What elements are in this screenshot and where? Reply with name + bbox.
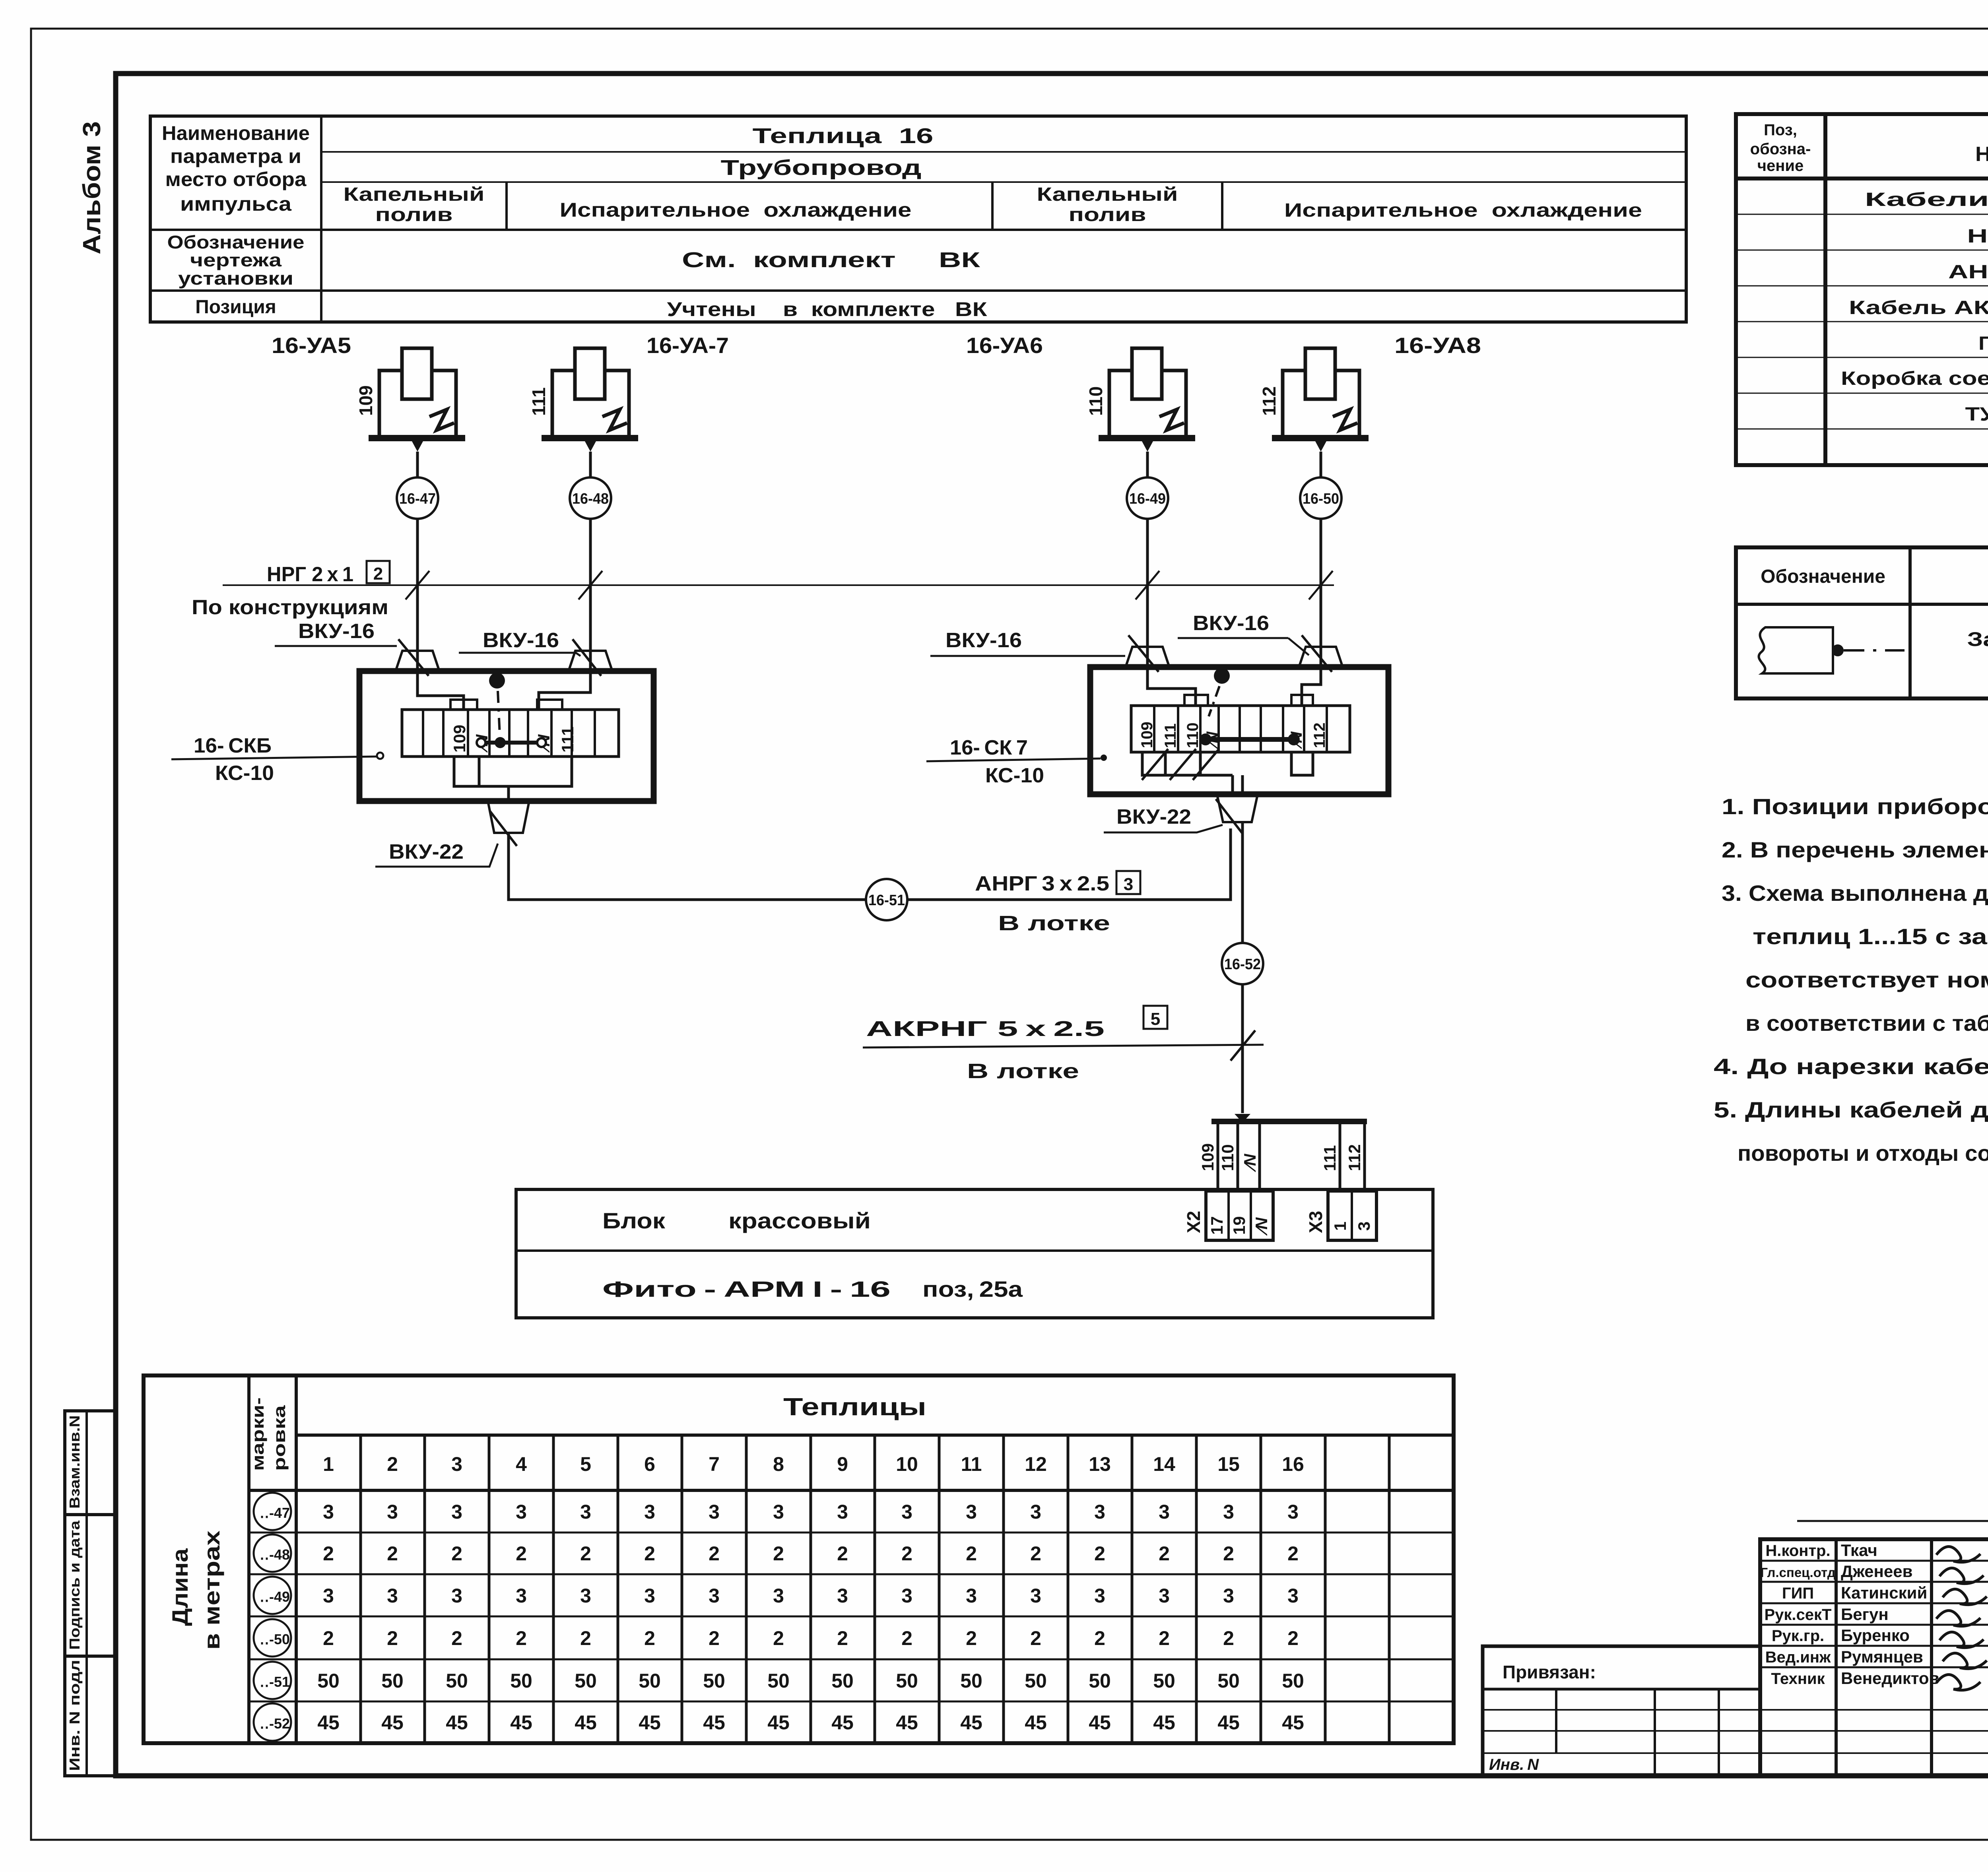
- svg-text:В лотке: В лотке: [998, 912, 1110, 935]
- svg-text:2: 2: [323, 1542, 334, 1565]
- svg-text:11: 11: [961, 1453, 982, 1475]
- svg-text:2: 2: [580, 1627, 591, 1649]
- label box 3: [1116, 871, 1140, 894]
- wire device 112 to box2: [1302, 452, 1321, 706]
- svg-text:7: 7: [709, 1453, 720, 1475]
- cable id circle 16-49: [1127, 477, 1168, 519]
- cable id circle 16-52: [1222, 943, 1263, 984]
- svg-text:50: 50: [960, 1670, 982, 1692]
- svg-text:2: 2: [1030, 1542, 1041, 1565]
- svg-text:50: 50: [1025, 1670, 1047, 1692]
- cable id circle 16-48: [570, 477, 611, 519]
- svg-text:‥-51: ‥-51: [260, 1674, 290, 1690]
- svg-text:ВКУ-16: ВКУ-16: [483, 629, 559, 652]
- svg-text:3: 3: [709, 1501, 720, 1523]
- svg-text:‥-49: ‥-49: [260, 1589, 290, 1605]
- box2 neutral jumper: [1206, 737, 1294, 742]
- svg-text:ВКУ-22: ВКУ-22: [389, 840, 464, 863]
- svg-text:111: 111: [558, 727, 577, 753]
- svg-text:2: 2: [1094, 1542, 1105, 1565]
- svg-text:чертежа: чертежа: [190, 250, 282, 270]
- svg-text:1: 1: [1331, 1222, 1349, 1231]
- greenhouse mark circle -49: [254, 1577, 291, 1614]
- svg-text:2: 2: [516, 1542, 527, 1565]
- svg-text:2: 2: [1094, 1627, 1105, 1649]
- svg-text:17: 17: [1208, 1216, 1226, 1235]
- svg-text:45: 45: [317, 1711, 340, 1734]
- title block top line: [1797, 1520, 1988, 1522]
- svg-text:109: 109: [1138, 722, 1156, 748]
- signature table bottom rows: [1760, 1709, 1988, 1711]
- greenhouse table column line x2200: [874, 1435, 876, 1743]
- svg-text:3: 3: [580, 1585, 591, 1607]
- greenhouse mark circle -48: [254, 1534, 291, 1572]
- svg-text:50: 50: [639, 1670, 661, 1692]
- svg-text:45: 45: [575, 1711, 597, 1734]
- solenoid valve 16-&#1059;А6: [1085, 348, 1195, 452]
- svg-text:Учтены в комплекте ВК: Учтены в комплекте ВК: [667, 298, 988, 320]
- parts table column line 4591: [1823, 114, 1827, 465]
- svg-text:Альбом 3: Альбом 3: [78, 121, 106, 254]
- svg-text:Рук.секТ: Рук.секТ: [1764, 1606, 1831, 1624]
- box2 bottom tabs and slashes: [1142, 752, 1233, 775]
- svg-text:Инв. N подл: Инв. N подл: [66, 1660, 83, 1771]
- svg-text:111: 111: [1162, 724, 1179, 748]
- svg-text:2: 2: [644, 1627, 655, 1649]
- greenhouse table column line x1877: [745, 1435, 748, 1743]
- svg-text:45: 45: [1217, 1711, 1240, 1734]
- greenhouse table column line x3171: [1260, 1435, 1262, 1743]
- svg-text:2: 2: [580, 1542, 591, 1565]
- terminal drop wires: [1217, 1121, 1219, 1191]
- legend ground-conductor symbol: [1759, 627, 1833, 673]
- svg-text:Вед.инж: Вед.инж: [1765, 1649, 1831, 1666]
- svg-text:3: 3: [773, 1585, 784, 1607]
- label АКРНГ 5х2.5 line: [863, 1045, 1264, 1048]
- svg-text:ВКУ-16: ВКУ-16: [945, 629, 1022, 652]
- gland ВКУ-16 at device109 entry: [396, 651, 439, 671]
- svg-text:50: 50: [1089, 1670, 1111, 1692]
- svg-text:45: 45: [896, 1711, 918, 1734]
- svg-text:3: 3: [837, 1501, 848, 1523]
- svg-text:Гл.спец.отд: Гл.спец.отд: [1760, 1565, 1835, 1580]
- cable id circle 16-51: [866, 879, 907, 920]
- svg-text:3: 3: [1094, 1501, 1105, 1523]
- svg-text:ВКУ-16: ВКУ-16: [1193, 612, 1269, 635]
- svg-text:3: 3: [1159, 1501, 1170, 1523]
- legend header line: [1736, 603, 1988, 606]
- svg-text:110: 110: [1218, 1144, 1237, 1171]
- parts table row line 6: [1736, 393, 1988, 394]
- parameter table row line under Теплица 16: [321, 151, 1686, 153]
- svg-text:марки-: марки-: [248, 1397, 267, 1471]
- solenoid valve 16-&#1059;А-7: [528, 348, 638, 452]
- svg-text:3. Схема выполнена для тепл: 3. Схема выполнена для теплицы 16 и прим…: [1722, 881, 1988, 906]
- svg-text:3: 3: [1124, 875, 1133, 894]
- svg-text:2: 2: [1159, 1627, 1170, 1649]
- svg-text:50: 50: [381, 1670, 404, 1692]
- parameter table column line 2496: [991, 182, 994, 230]
- signature row Гл.спец.отд Дженеев: [1760, 1560, 1988, 1562]
- svg-text:Длина: Длина: [167, 1548, 192, 1626]
- greenhouse table column line x2524: [1002, 1435, 1005, 1743]
- svg-text:Взам.инв.N: Взам.инв.N: [66, 1415, 83, 1509]
- cable slash АКРНГ: [1231, 1030, 1255, 1061]
- box2 ВКУ-22 slash: [1216, 799, 1243, 834]
- svg-text:16-УА8: 16-УА8: [1394, 333, 1481, 358]
- gland ВКУ-16 at device112 entry: [1299, 647, 1343, 667]
- margin box Взам.инв.N: [65, 1411, 116, 1515]
- svg-text:6: 6: [644, 1453, 655, 1475]
- svg-text:2: 2: [644, 1542, 655, 1565]
- greenhouse table row line y4280: [249, 1701, 1454, 1703]
- svg-text:ровка: ровка: [270, 1405, 289, 1471]
- svg-text:КС-10: КС-10: [215, 762, 274, 785]
- svg-text:По конструкциям: По конструкциям: [192, 596, 388, 619]
- svg-text:‥-47: ‥-47: [260, 1505, 290, 1521]
- svg-text:45: 45: [703, 1711, 725, 1734]
- svg-text:Кабель АКРНГ 5×2.5: Кабель АКРНГ 5×2.5: [1849, 297, 1988, 318]
- gland ВКУ-16 at device111 entry: [569, 651, 612, 671]
- box2 ground dash-dot line: [1209, 686, 1219, 716]
- box1 ground dash-dot line: [498, 691, 500, 735]
- svg-text:50: 50: [767, 1670, 790, 1692]
- cable line НРГ 2x1: [223, 584, 1334, 586]
- parameter table row line under См. комплект: [150, 289, 1686, 292]
- box2 exit wires: [1233, 775, 1242, 793]
- svg-text:2: 2: [1287, 1627, 1299, 1649]
- svg-text:3: 3: [1159, 1585, 1170, 1607]
- svg-text:112: 112: [1345, 1144, 1364, 1171]
- svg-text:поз, 25а: поз, 25а: [922, 1276, 1023, 1302]
- svg-text:Техник: Техник: [1771, 1670, 1825, 1688]
- block middle line: [516, 1249, 1433, 1252]
- parts table row line 1: [1736, 214, 1988, 215]
- greenhouse table column line x1068: [423, 1435, 426, 1743]
- svg-text:ГОСТ 1508-78: ГОСТ 1508-78: [1978, 333, 1988, 354]
- svg-text:3: 3: [1287, 1501, 1299, 1523]
- svg-text:ГИП: ГИП: [1782, 1585, 1814, 1602]
- svg-text:ТУ 36.2568-83: ТУ 36.2568-83: [1965, 404, 1988, 425]
- svg-text:109: 109: [1198, 1143, 1217, 1171]
- svg-text:теплиц 1...15 с заменой ин: теплиц 1...15 с заменой индекса в обозна…: [1753, 924, 1988, 949]
- svg-text:16: 16: [1282, 1453, 1304, 1475]
- svg-text:НРГ-0.66 2×1: НРГ-0.66 2×1: [1967, 226, 1988, 247]
- svg-text:3: 3: [966, 1501, 977, 1523]
- svg-text:Подпись и дата: Подпись и дата: [66, 1520, 83, 1650]
- greenhouse table column line x3494: [1388, 1435, 1391, 1743]
- box1 ВКУ-22 slash: [490, 811, 517, 846]
- svg-text:2: 2: [387, 1453, 398, 1475]
- greenhouse table row line y3855: [249, 1532, 1454, 1534]
- box1 top tabs: [450, 700, 562, 710]
- greenhouse table column line x2847: [1131, 1435, 1134, 1743]
- svg-text:50: 50: [831, 1670, 854, 1692]
- box2 right bottom tab: [1291, 752, 1313, 775]
- svg-text:50: 50: [896, 1670, 918, 1692]
- svg-text:4. До нарезки кабеля длины: 4. До нарезки кабеля длины трасс уточнит…: [1714, 1054, 1988, 1079]
- svg-text:13: 13: [1089, 1453, 1111, 1475]
- signature row Вед.инж Румянцев: [1760, 1645, 1988, 1647]
- svg-text:2: 2: [1223, 1542, 1234, 1565]
- greenhouse mark circle -52: [254, 1703, 291, 1741]
- box1 bottom tabs: [454, 757, 572, 786]
- svg-text:5: 5: [1151, 1009, 1160, 1029]
- greenhouse table column line x2039: [810, 1435, 812, 1743]
- svg-text:Инв. N: Инв. N: [1489, 1756, 1539, 1773]
- svg-text:2: 2: [901, 1627, 912, 1649]
- svg-text:3: 3: [451, 1453, 462, 1475]
- signature row Рук.секТ Бегун: [1760, 1602, 1988, 1604]
- svg-text:1: 1: [323, 1453, 334, 1475]
- box2 top tabs: [1184, 695, 1313, 706]
- svg-text:109: 109: [355, 385, 376, 416]
- svg-text:в соответствии с таблицей: в соответствии с таблицей применимости.: [1745, 1011, 1988, 1036]
- svg-text:45: 45: [960, 1711, 982, 1734]
- svg-text:3: 3: [966, 1585, 977, 1607]
- svg-text:50: 50: [510, 1670, 532, 1692]
- svg-text:3: 3: [644, 1585, 655, 1607]
- svg-text:Н.контр.: Н.контр.: [1765, 1542, 1830, 1560]
- svg-text:2: 2: [1159, 1542, 1170, 1565]
- svg-text:в метрах: в метрах: [199, 1531, 224, 1650]
- svg-text:112: 112: [1311, 722, 1328, 748]
- box1 terminal strip: [402, 710, 619, 757]
- svg-text:111: 111: [528, 387, 549, 416]
- svg-text:Позиция: Позиция: [195, 297, 276, 318]
- svg-text:50: 50: [317, 1670, 340, 1692]
- wire box2 down to crossover bar: [1241, 822, 1244, 1113]
- svg-text:9: 9: [837, 1453, 848, 1475]
- greenhouse mark circle -50: [254, 1619, 291, 1657]
- svg-text:‥-48: ‥-48: [260, 1546, 290, 1563]
- svg-text:Х2: Х2: [1183, 1211, 1204, 1233]
- greenhouse table column line x3333: [1324, 1435, 1327, 1743]
- svg-text:19: 19: [1230, 1216, 1248, 1235]
- greenhouse table column line x3009: [1195, 1435, 1198, 1743]
- svg-text:2: 2: [1287, 1542, 1299, 1565]
- parts table row line 7: [1736, 429, 1988, 430]
- wire device 109 to box1: [417, 452, 464, 710]
- label box 5: [1143, 1006, 1167, 1029]
- solenoid valve 16-&#1059;А8: [1259, 348, 1369, 452]
- cable slash at 1050: [406, 571, 429, 599]
- svg-text:45: 45: [831, 1711, 854, 1734]
- svg-text:Наименование: Наименование: [162, 122, 310, 144]
- svg-text:Буренко: Буренко: [1841, 1626, 1910, 1645]
- svg-text:14: 14: [1153, 1453, 1175, 1475]
- svg-text:3: 3: [644, 1501, 655, 1523]
- svg-text:Х3: Х3: [1305, 1211, 1326, 1233]
- margin box Инв. N подл: [65, 1656, 116, 1776]
- svg-text:50: 50: [703, 1670, 725, 1692]
- svg-text:2: 2: [451, 1542, 462, 1565]
- svg-text:3: 3: [323, 1585, 334, 1607]
- svg-text:АНРГ-0.66 3×2.5: АНРГ-0.66 3×2.5: [1948, 262, 1988, 283]
- svg-text:2: 2: [1030, 1627, 1041, 1649]
- svg-text:2: 2: [901, 1542, 912, 1565]
- signature row ГИП Катинский: [1760, 1581, 1988, 1583]
- svg-text:2: 2: [323, 1627, 334, 1649]
- greenhouse table column line x1715: [681, 1435, 683, 1743]
- svg-text:2: 2: [451, 1627, 462, 1649]
- svg-text:Капельный: Капельный: [1037, 184, 1178, 205]
- svg-text:импульса: импульса: [180, 193, 292, 215]
- parameter table row line under Трубопровод: [321, 181, 1686, 183]
- parameter table row line under header: [150, 229, 1686, 231]
- svg-text:Бегун: Бегун: [1841, 1605, 1889, 1624]
- svg-text:10: 10: [896, 1453, 918, 1475]
- svg-text:3: 3: [901, 1501, 912, 1523]
- greenhouse table row line y4066: [249, 1616, 1454, 1618]
- svg-text:Испарительное охлаждение: Испарительное охлаждение: [560, 199, 912, 221]
- svg-text:место отбора: место отбора: [165, 168, 307, 190]
- svg-text:3: 3: [516, 1501, 527, 1523]
- cable slash at 2886: [1136, 571, 1159, 599]
- cable slash at 1485: [579, 571, 602, 599]
- solenoid valve 16-&#1059;А5: [355, 348, 465, 452]
- greenhouse table row line y3960: [249, 1573, 1454, 1575]
- parameter table frame: [150, 116, 1686, 322]
- svg-text:ВКУ-16: ВКУ-16: [298, 620, 375, 643]
- svg-text:В лотке: В лотке: [967, 1060, 1079, 1083]
- svg-text:3: 3: [451, 1585, 462, 1607]
- svg-text:3: 3: [1355, 1222, 1373, 1231]
- svg-text:2: 2: [1223, 1627, 1234, 1649]
- svg-text:полив: полив: [375, 204, 453, 225]
- svg-text:45: 45: [1025, 1711, 1047, 1734]
- svg-text:45: 45: [639, 1711, 661, 1734]
- svg-text:45: 45: [1153, 1711, 1175, 1734]
- svg-text:3: 3: [323, 1501, 334, 1523]
- svg-text:соответствует номеру теплицы: соответствует номеру теплицы, а длины ка…: [1745, 967, 1988, 992]
- parts table frame: [1736, 114, 1988, 465]
- greenhouse mark circle -51: [254, 1662, 291, 1699]
- svg-text:обозна-: обозна-: [1750, 140, 1811, 158]
- svg-text:Трубопровод: Трубопровод: [721, 156, 922, 180]
- svg-text:16-УА5: 16-УА5: [272, 333, 351, 358]
- svg-text:8: 8: [773, 1453, 784, 1475]
- svg-text:109: 109: [450, 725, 469, 753]
- parts table row line 2: [1736, 250, 1988, 251]
- svg-text:Коробка соединительная КС-10: Коробка соединительная КС-10: [1841, 368, 1988, 389]
- svg-text:2: 2: [966, 1542, 977, 1565]
- parameter table column line 1274: [505, 182, 508, 230]
- legend table frame: [1736, 547, 1988, 698]
- svg-text:‥-52: ‥-52: [260, 1715, 290, 1732]
- svg-text:16-49: 16-49: [1129, 491, 1166, 507]
- wire device 110 to box2: [1147, 452, 1196, 706]
- svg-text:Капельный: Капельный: [344, 184, 485, 205]
- greenhouse table column Длина/Марки line: [247, 1375, 250, 1743]
- parameter table label column line: [320, 116, 322, 322]
- svg-text:Обозначение: Обозначение: [1761, 566, 1885, 587]
- greenhouse table header line: [296, 1434, 1454, 1437]
- svg-text:2: 2: [966, 1627, 977, 1649]
- greenhouse table column line x1230: [488, 1435, 491, 1743]
- svg-text:Привязан:: Привязан:: [1503, 1662, 1596, 1682]
- svg-text:‥-50: ‥-50: [260, 1631, 290, 1647]
- svg-text:Румянцев: Румянцев: [1841, 1647, 1923, 1666]
- svg-text:3: 3: [901, 1585, 912, 1607]
- svg-text:16-48: 16-48: [572, 491, 609, 507]
- svg-text:3: 3: [1223, 1501, 1234, 1523]
- svg-text:45: 45: [381, 1711, 404, 1734]
- cable id circle 16-47: [397, 477, 438, 519]
- legend column line: [1908, 547, 1912, 698]
- greenhouse table column line x2362: [938, 1435, 941, 1743]
- svg-text:45: 45: [1282, 1711, 1304, 1734]
- svg-text:установки: установки: [178, 268, 293, 289]
- attachment block Привязан: [1483, 1646, 1760, 1776]
- svg-text:3: 3: [1223, 1585, 1234, 1607]
- svg-text:2: 2: [837, 1542, 848, 1565]
- svg-text:Фито - АРМ I - 16: Фито - АРМ I - 16: [602, 1276, 891, 1302]
- svg-text:Наименование: Наименование: [1975, 143, 1988, 166]
- svg-text:Теплица 16: Теплица 16: [753, 124, 934, 148]
- svg-text:Заземляющий проводник, присо: Заземляющий проводник, присоединяетый: [1967, 628, 1988, 650]
- junction box 16-СКБ outline: [359, 671, 654, 801]
- svg-text:крассовый: крассовый: [728, 1208, 871, 1233]
- svg-text:2: 2: [837, 1627, 848, 1649]
- greenhouse table column line x2686: [1067, 1435, 1070, 1743]
- svg-text:16-УА-7: 16-УА-7: [646, 333, 729, 358]
- svg-text:16-47: 16-47: [399, 491, 436, 507]
- block крассовый outline: [516, 1189, 1433, 1318]
- svg-text:НРГ 2 х 1: НРГ 2 х 1: [267, 563, 353, 586]
- greenhouse table column line x1392: [552, 1435, 555, 1743]
- svg-text:45: 45: [1089, 1711, 1111, 1734]
- gland ВКУ-22 box2: [1217, 793, 1258, 822]
- svg-text:См. комплект ВК: См. комплект ВК: [682, 248, 981, 272]
- signature row Н.контр. Ткач: [1760, 1539, 1988, 1540]
- svg-text:КС-10: КС-10: [985, 764, 1044, 787]
- greenhouse table frame: [144, 1375, 1454, 1743]
- svg-text:АНРГ 3 х 2.5: АНРГ 3 х 2.5: [975, 872, 1109, 895]
- svg-text:12: 12: [1025, 1453, 1047, 1475]
- svg-text:16- СКБ: 16- СКБ: [194, 734, 272, 757]
- svg-text:ВКУ-22: ВКУ-22: [1116, 805, 1191, 828]
- svg-text:111: 111: [1320, 1145, 1339, 1171]
- greenhouse table row line y4174: [249, 1659, 1454, 1661]
- svg-text:2: 2: [773, 1627, 784, 1649]
- svg-text:чение: чение: [1757, 157, 1804, 175]
- svg-text:Ткач: Ткач: [1841, 1541, 1877, 1560]
- svg-text:3: 3: [387, 1585, 398, 1607]
- legend ground-conductor dash-dot line: [1844, 649, 1905, 652]
- svg-text:45: 45: [767, 1711, 790, 1734]
- wire device 111 to box1: [539, 452, 590, 710]
- svg-text:50: 50: [1217, 1670, 1240, 1692]
- svg-text:50: 50: [575, 1670, 597, 1692]
- label box 2: [367, 561, 390, 583]
- signature row Рук.гр. Буренко: [1760, 1624, 1988, 1626]
- svg-text:16-50: 16-50: [1303, 491, 1339, 507]
- box1 neutral jumper: [481, 741, 542, 745]
- svg-text:Теплицы: Теплицы: [783, 1393, 926, 1421]
- box1 ground dot: [489, 673, 505, 689]
- svg-text:2: 2: [709, 1542, 720, 1565]
- parts table row line 3: [1736, 285, 1988, 287]
- svg-text:4: 4: [516, 1453, 527, 1475]
- svg-text:15: 15: [1217, 1453, 1240, 1475]
- svg-text:Поз,: Поз,: [1764, 121, 1797, 139]
- greenhouse table numbers row line: [249, 1489, 1454, 1492]
- box2 ground dot: [1214, 668, 1230, 684]
- gland ВКУ-22 box1: [488, 801, 529, 833]
- svg-text:1. Позиции приборов и аппар: 1. Позиции приборов и аппаратуры указаны…: [1722, 794, 1988, 819]
- svg-text:2: 2: [516, 1627, 527, 1649]
